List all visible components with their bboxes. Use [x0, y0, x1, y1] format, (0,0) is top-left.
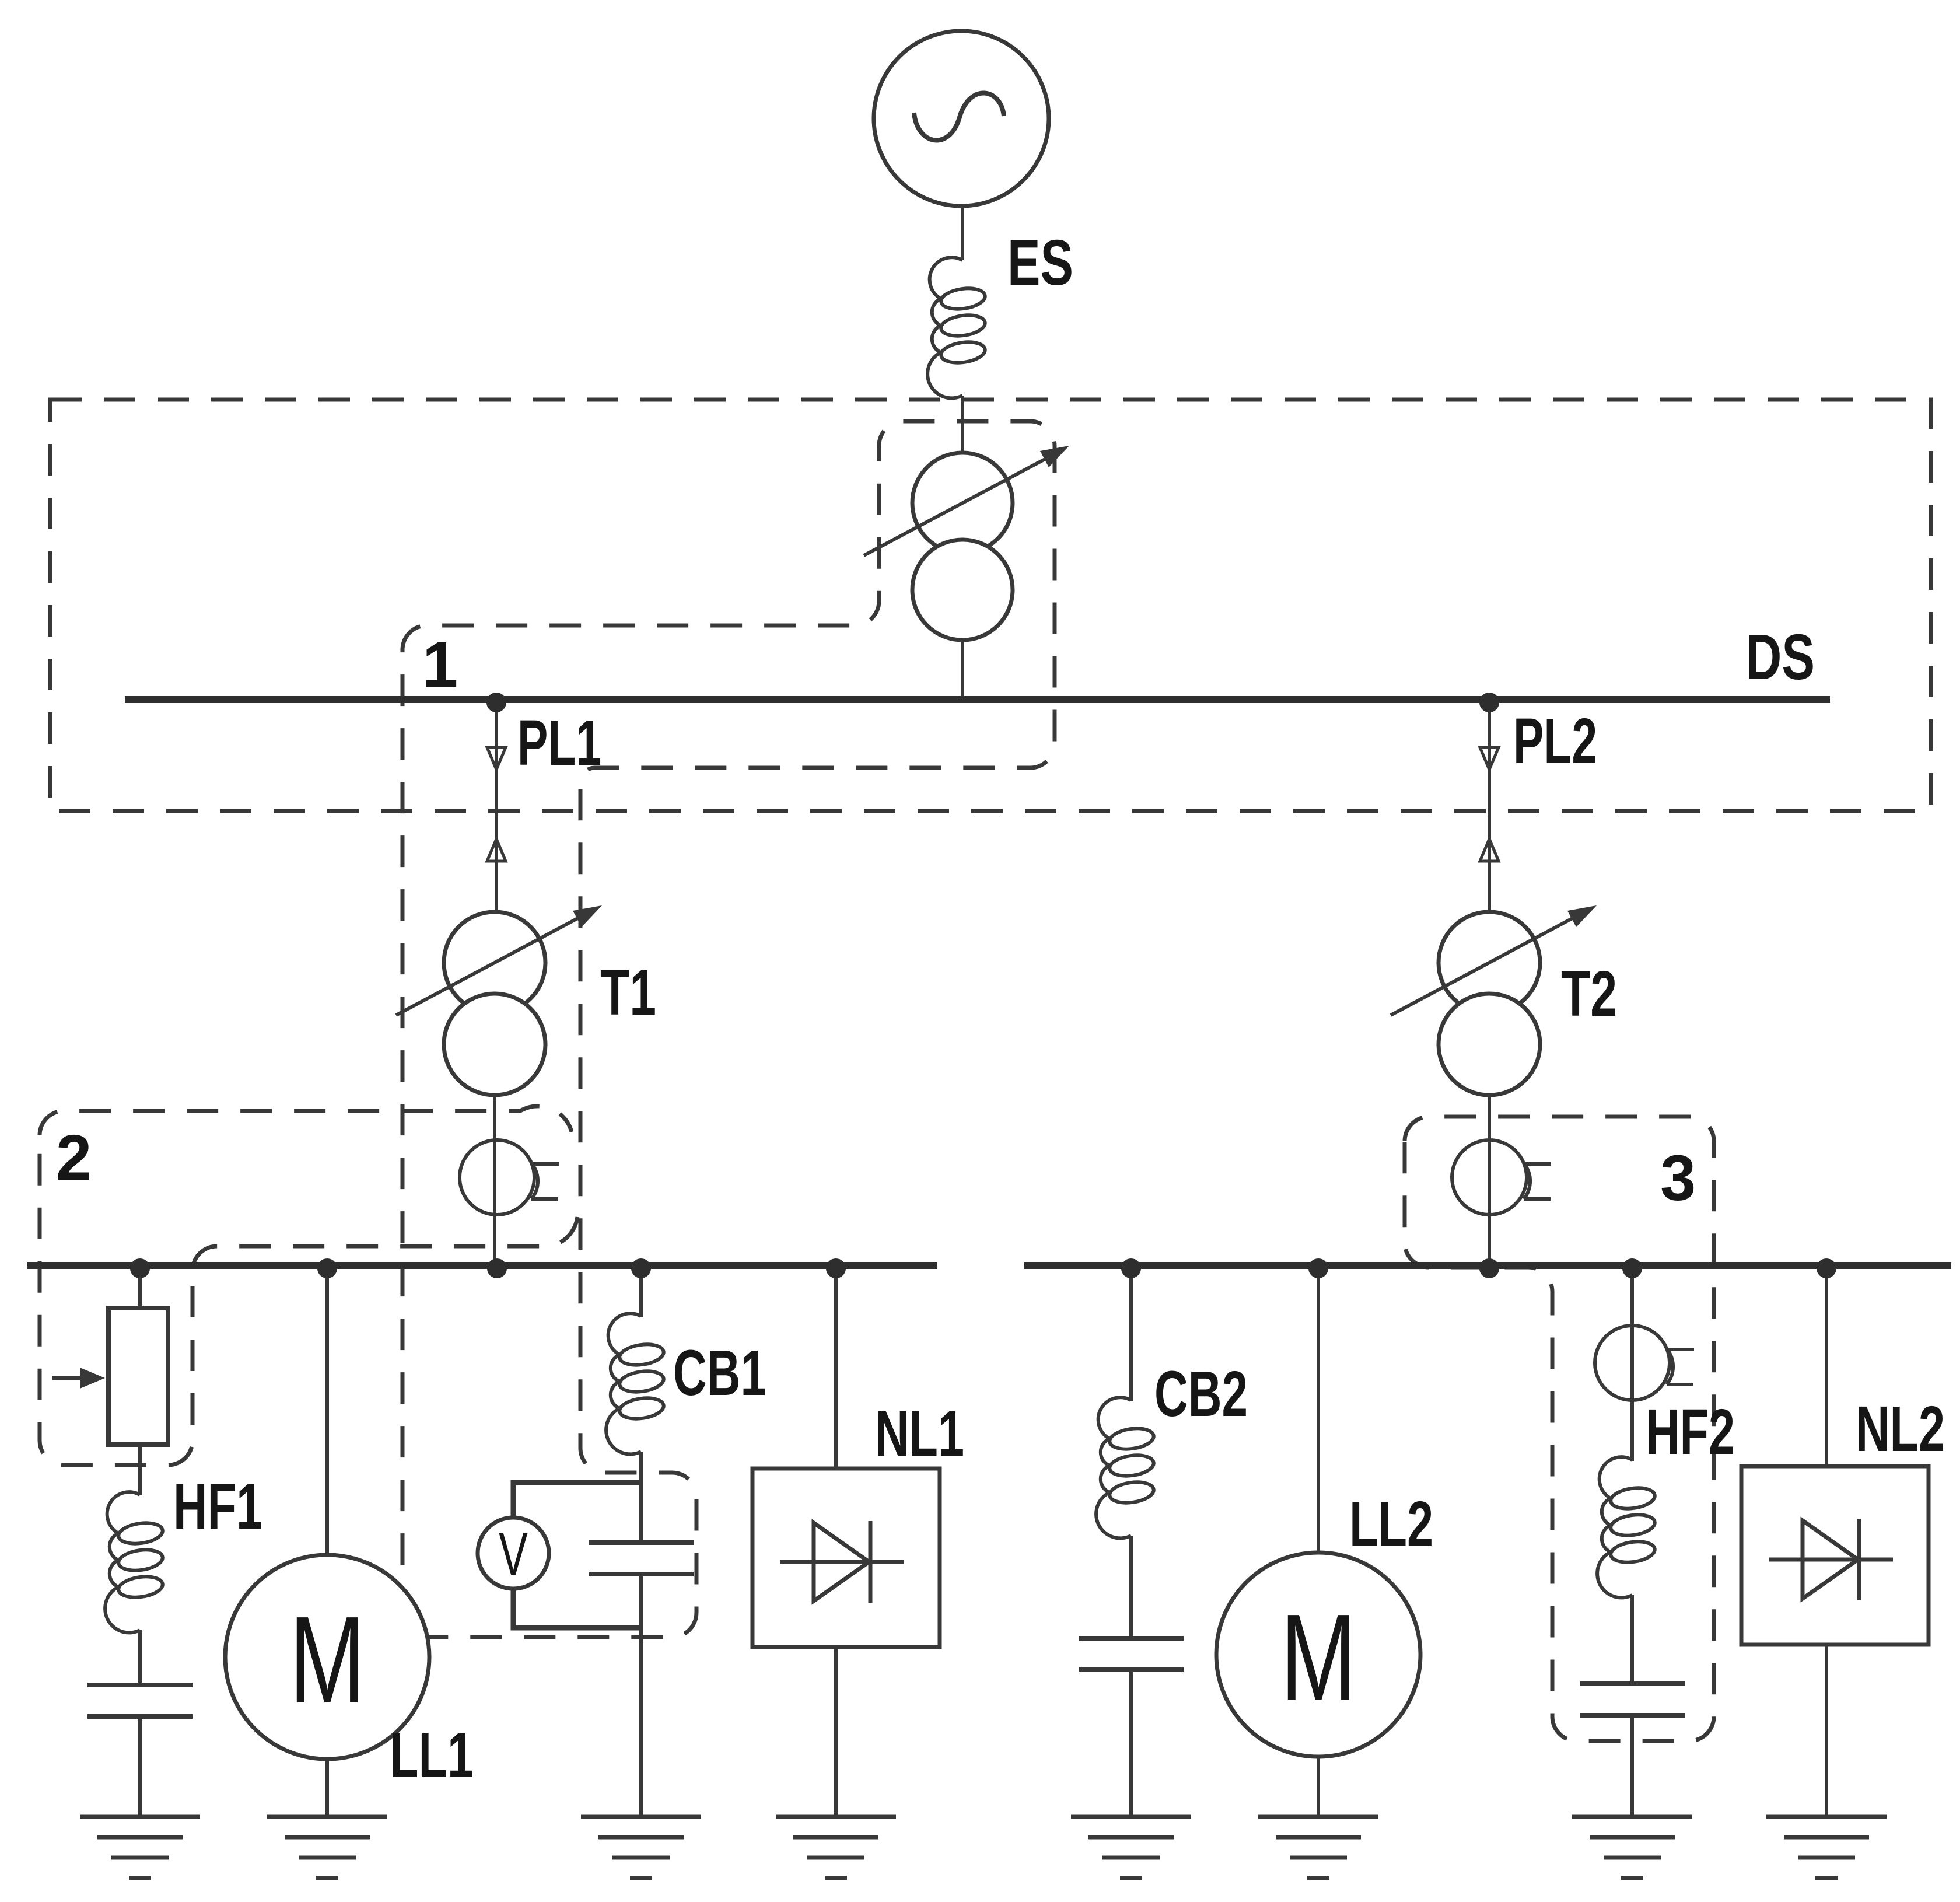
svg-text:HF1: HF1 — [173, 1471, 262, 1543]
svg-text:NL1: NL1 — [875, 1398, 964, 1470]
svg-text:V: V — [499, 1520, 528, 1589]
svg-text:NL2: NL2 — [1856, 1393, 1945, 1465]
svg-text:PL1: PL1 — [517, 707, 601, 779]
svg-text:T1: T1 — [600, 957, 656, 1029]
svg-text:1: 1 — [422, 629, 458, 701]
svg-text:CB2: CB2 — [1154, 1358, 1248, 1430]
svg-text:T2: T2 — [1561, 958, 1617, 1030]
svg-text:2: 2 — [56, 1122, 92, 1194]
svg-text:DS: DS — [1746, 621, 1815, 693]
svg-text:LL2: LL2 — [1349, 1488, 1433, 1560]
svg-text:HF2: HF2 — [1646, 1396, 1735, 1468]
svg-text:PL2: PL2 — [1513, 705, 1597, 777]
svg-text:CB1: CB1 — [673, 1337, 766, 1409]
svg-text:ES: ES — [1007, 227, 1073, 299]
svg-text:3: 3 — [1660, 1142, 1696, 1214]
svg-text:LL1: LL1 — [390, 1719, 474, 1791]
